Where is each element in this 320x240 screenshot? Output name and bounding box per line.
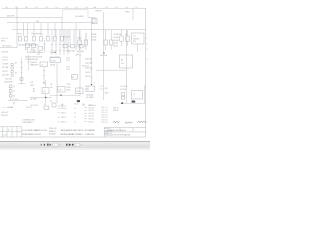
- viewer toolbar background: [0, 141, 150, 150]
- toolbar zoom field: [75, 143, 80, 146]
- svg-text:MONOGERATOR MILL . 1 SPD FD: MONOGERATOR MILL . 1 SPD FD: [61, 133, 95, 136]
- breaker Q8: [79, 44, 83, 48]
- fuse row top labels: [18, 34, 43, 36]
- svg-text:-S6: -S6: [50, 87, 53, 89]
- drive unit U1: [132, 33, 145, 44]
- wire tee group: [51, 30, 69, 55]
- svg-text:-X1:1 L1: -X1:1 L1: [2, 57, 8, 59]
- revision text rows: [22, 129, 47, 136]
- svg-text:-M3 2.2kW: -M3 2.2kW: [100, 55, 108, 57]
- svg-text:21: 21: [14, 91, 16, 93]
- toolbar prev icon: [43, 144, 45, 146]
- svg-text:-B2: -B2: [85, 89, 88, 91]
- svg-text:SEQUENCE SECTION - STONERU: SEQUENCE SECTION - STONERU: [61, 130, 96, 132]
- node D: [60, 95, 61, 96]
- svg-text:-W17 0.75: -W17 0.75: [101, 122, 108, 124]
- wire feeder e: [40, 23, 42, 36]
- svg-text:13: 13: [14, 86, 16, 88]
- wire lower hline: [8, 100, 28, 102]
- svg-text:10: 10: [25, 7, 27, 9]
- svg-text:-W12 0.75: -W12 0.75: [101, 109, 108, 111]
- label k11 left rows: [30, 87, 37, 100]
- sensor marks: [100, 86, 109, 94]
- ground M1: [12, 103, 15, 105]
- wire t1 drop: [43, 67, 45, 83]
- fuse F2: [25, 36, 28, 41]
- wire feeder b: [23, 23, 25, 36]
- svg-text:-W11 12x: -W11 12x: [113, 107, 119, 109]
- svg-text:STONE MILL MCC E-41001: STONE MILL MCC E-41001: [107, 130, 126, 132]
- svg-text:-S12 3/4: -S12 3/4: [85, 76, 91, 78]
- svg-text:-K20 13/14: -K20 13/14: [85, 59, 92, 61]
- contact col4 a: [90, 61, 92, 63]
- title block: [104, 128, 146, 137]
- svg-text:-W3 4x1.5: -W3 4x1.5: [1, 115, 8, 117]
- relay K12: [58, 87, 66, 93]
- svg-text:T1: T1: [41, 64, 43, 66]
- svg-text:-W11 0.75: -W11 0.75: [101, 107, 108, 109]
- wire ladder foot: [18, 83, 25, 85]
- wire feeder g: [54, 23, 56, 36]
- svg-text:-X1:2 N: -X1:2 N: [2, 59, 8, 61]
- svg-text:-F14 -F15: -F14 -F15: [63, 36, 70, 38]
- contactor K6: [110, 40, 113, 45]
- svg-text:X9:6 1.5: X9:6 1.5: [89, 121, 95, 123]
- svg-text:0 1 2 3: 0 1 2 3: [3, 135, 7, 137]
- fuse F6: [54, 36, 57, 41]
- svg-text:X9:3 1.5: X9:3 1.5: [89, 113, 95, 115]
- label g1 notes: [66, 57, 70, 71]
- wire col4 lower: [91, 58, 93, 84]
- svg-text:-W8 3G1.5: -W8 3G1.5: [95, 11, 102, 13]
- svg-text:X8:4 2.5: X8:4 2.5: [61, 122, 67, 124]
- svg-text:K12: K12: [59, 90, 62, 92]
- svg-text:X8:3 2.5: X8:3 2.5: [61, 117, 67, 119]
- label k13 right: [85, 86, 88, 93]
- svg-text:X9:4 1.5: X9:4 1.5: [89, 116, 95, 118]
- svg-text:-Q0 3x400V: -Q0 3x400V: [75, 16, 84, 18]
- wire drive drop: [137, 44, 139, 52]
- label k14 under: [86, 93, 94, 99]
- svg-text:-H2 TRIP: -H2 TRIP: [2, 67, 8, 69]
- label margin rows: [146, 34, 147, 46]
- revision table: [0, 127, 22, 137]
- svg-text:L2: L2: [74, 113, 76, 115]
- svg-text:-K11: -K11: [30, 82, 33, 84]
- wire feeder m4: [85, 33, 87, 44]
- svg-text:-X0 PE N L: -X0 PE N L: [1, 51, 9, 53]
- label feeder j: [76, 54, 89, 67]
- svg-text:-B1: -B1: [85, 86, 88, 88]
- wire feeder d: [33, 23, 35, 36]
- label stack pins: [14, 86, 16, 97]
- relay K14: [88, 86, 95, 91]
- svg-text:X8:2 2.5: X8:2 2.5: [61, 113, 67, 115]
- svg-text:-W2 4x2.5: -W2 4x2.5: [1, 112, 8, 114]
- svg-text:ss4: ss4: [94, 7, 97, 9]
- contactor K11: [42, 88, 49, 94]
- svg-text:13/14: 13/14: [30, 85, 34, 87]
- svg-text:DWG NO: DWG NO: [105, 128, 112, 130]
- svg-text:-W13 0.75: -W13 0.75: [101, 112, 108, 114]
- svg-text:-M1 MOTOR: -M1 MOTOR: [4, 81, 13, 83]
- motor starter stack: [9, 85, 12, 101]
- indicator squares: [11, 63, 13, 76]
- label k cluster rows: [30, 50, 40, 55]
- contact t1 a: [43, 70, 45, 72]
- svg-text:5/L3: 5/L3: [37, 54, 40, 56]
- svg-text:VFD 4kW: VFD 4kW: [133, 38, 140, 40]
- enclosure box: [120, 55, 133, 68]
- toolbar play icon: [69, 143, 71, 146]
- svg-text:-K15 13/14: -K15 13/14: [5, 78, 12, 80]
- svg-text:L3: L3: [74, 117, 76, 119]
- svg-text:S7: S7: [50, 101, 52, 103]
- wire k12 bus: [50, 94, 80, 96]
- label bl symbol: [3, 106, 14, 109]
- coil K1a: [20, 78, 23, 81]
- svg-text:21/22: 21/22: [67, 84, 71, 86]
- notes block 1: [49, 128, 57, 135]
- svg-text:-X3 1 2 3: -X3 1 2 3: [12, 99, 18, 101]
- svg-text:X8:1 2.5: X8:1 2.5: [61, 108, 67, 110]
- svg-text:X9:5 1.5: X9:5 1.5: [89, 119, 95, 121]
- svg-text:-W1 4x6mm2: -W1 4x6mm2: [2, 46, 12, 48]
- meter box P1: [92, 19, 97, 24]
- contact marks mid: [75, 54, 81, 56]
- svg-text:1: 1: [54, 145, 55, 147]
- label drive rows: [133, 36, 140, 44]
- wire f8 drop: [121, 41, 123, 46]
- wire f8 rail: [121, 30, 123, 36]
- node J: [103, 52, 104, 53]
- ground bottom: [61, 103, 64, 107]
- svg-text:-W5 3x1.5: -W5 3x1.5: [82, 66, 89, 68]
- svg-text:1.5kW 2.2kW: 1.5kW 2.2kW: [66, 51, 76, 53]
- fuse F9: [126, 36, 129, 41]
- power supply G1: [50, 58, 61, 63]
- svg-text:-X6 1 2: -X6 1 2: [74, 104, 79, 106]
- svg-text:1) TORQUE 2.5Nm: 1) TORQUE 2.5Nm: [22, 119, 36, 121]
- contactor K3: [78, 40, 82, 45]
- dark node F: [132, 101, 135, 103]
- svg-text:-X10 1 2: -X10 1 2: [26, 107, 32, 109]
- svg-text:4: 4: [147, 49, 148, 51]
- label bm rows: [101, 107, 108, 124]
- contactor K4: [84, 40, 88, 45]
- contact t1 b: [43, 75, 45, 77]
- contact S2: [20, 67, 22, 69]
- label lower left: [4, 78, 13, 83]
- filter symbols: [122, 93, 125, 100]
- zone labels: [5, 7, 137, 9]
- svg-text:-W10: -W10: [105, 92, 109, 94]
- svg-text:-K21 21/22: -K21 21/22: [85, 63, 92, 65]
- svg-text:X9:2 1.5: X9:2 1.5: [89, 110, 95, 112]
- svg-text:-W15 0.75: -W15 0.75: [101, 117, 108, 119]
- svg-text:F3 F4 F5 F6 F7: F3 F4 F5 F6 F7: [32, 34, 43, 36]
- svg-text:-S10 RST: -S10 RST: [2, 74, 9, 76]
- svg-text:-S5: -S5: [50, 84, 53, 86]
- wire L2 bus: [7, 22, 95, 24]
- svg-text:Y1: Y1: [133, 94, 135, 96]
- label k12 notes: [50, 84, 70, 91]
- svg-text:S2: S2: [15, 72, 17, 74]
- svg-text:L1: L1: [74, 108, 76, 110]
- wire feeder long1: [103, 12, 105, 100]
- wire feeder j: [79, 30, 81, 95]
- wire feeder long2: [126, 30, 128, 103]
- contactor K2: [32, 44, 36, 48]
- sheet border frame: [0, 8, 146, 137]
- contactor K1: [26, 44, 30, 48]
- terminal list rows B: [84, 107, 94, 123]
- svg-text:-H1 RUN: -H1 RUN: [2, 64, 8, 66]
- wire feeder i: [75, 23, 77, 50]
- svg-text:K11: K11: [43, 91, 46, 93]
- contact S4: [27, 61, 29, 63]
- label sel rows: [31, 63, 38, 66]
- svg-text:K13: K13: [77, 91, 80, 93]
- label col4 lower rows: [85, 59, 92, 79]
- wire feeder m3: [73, 30, 75, 44]
- svg-text:-W14 0.75: -W14 0.75: [101, 114, 108, 116]
- contact col4 c: [90, 77, 92, 79]
- wire f9 drop: [127, 41, 129, 46]
- valve Y1: [132, 91, 143, 100]
- wire feeder m1: [65, 30, 67, 44]
- wire riser x133: [132, 8, 134, 20]
- node A: [17, 17, 18, 18]
- incoming supply block Q0: [63, 9, 89, 11]
- svg-text:R1: R1: [44, 104, 46, 106]
- svg-text:-W9: -W9: [105, 88, 108, 90]
- wire feeder f: [47, 23, 49, 36]
- svg-text:L4: L4: [74, 122, 76, 124]
- svg-text:-X2:3: -X2:3: [66, 67, 70, 69]
- wire feeder c: [27, 23, 29, 36]
- label tee texts: [50, 56, 60, 58]
- svg-text:COND. COL: COND. COL: [49, 128, 57, 130]
- terminal strip X2: [72, 75, 78, 80]
- svg-text:X9:1 1.5: X9:1 1.5: [89, 107, 95, 109]
- component bottom a: [44, 106, 49, 109]
- wire feeder m5: [91, 30, 93, 58]
- svg-text:5: 5: [147, 59, 148, 61]
- fuse F5: [47, 36, 50, 41]
- svg-text:IP20: IP20: [133, 41, 136, 43]
- toolbar next icon: [50, 144, 52, 146]
- svg-text:G1 24V: G1 24V: [51, 60, 56, 62]
- wire feeder a: [16, 8, 18, 48]
- svg-text:-W12 4x: -W12 4x: [113, 110, 119, 112]
- transformer T1: [40, 62, 48, 67]
- svg-text:/2: /2: [59, 145, 60, 147]
- label bm extra: [113, 107, 119, 112]
- label left list: [2, 57, 9, 77]
- svg-text:S1: S1: [15, 62, 17, 64]
- title sub block: [105, 128, 113, 135]
- label mid lower: [30, 82, 34, 87]
- svg-text:-K22 13/14: -K22 13/14: [85, 67, 92, 69]
- wire right lower v: [144, 85, 146, 103]
- label bl rows: [1, 112, 8, 117]
- svg-text:31/32: 31/32: [67, 87, 71, 89]
- contactor K5: [104, 40, 107, 45]
- svg-text:SHEET 1/2: SHEET 1/2: [105, 133, 112, 135]
- svg-text:-S11 3/4: -S11 3/4: [85, 72, 91, 74]
- node H: [54, 52, 55, 53]
- label right lower rows: [120, 86, 128, 91]
- fuse F1: [19, 36, 22, 41]
- svg-text:2) SEE SHEET 2: 2) SEE SHEET 2: [22, 122, 34, 124]
- node G: [91, 84, 92, 85]
- aux block S7: [52, 103, 56, 107]
- svg-text:12: 12: [5, 7, 7, 9]
- fuse F8: [120, 36, 123, 41]
- svg-text:-X2:4: -X2:4: [66, 69, 70, 71]
- relay K13: [76, 88, 84, 94]
- wire g1 drop: [56, 63, 58, 103]
- fuse F4: [40, 36, 43, 41]
- wire feeder m2: [69, 30, 71, 44]
- svg-text:43/44: 43/44: [67, 89, 71, 91]
- overload relay F10: [38, 47, 43, 51]
- svg-text:A1: A1: [121, 59, 123, 62]
- toolbar minus icon: [66, 144, 68, 146]
- contact col4 b: [90, 69, 92, 71]
- svg-text:-W16 0.75: -W16 0.75: [101, 119, 108, 121]
- toolbar dot icon: [47, 144, 48, 146]
- svg-text:X2: X2: [72, 77, 74, 79]
- svg-text:F1 F2: F1 F2: [18, 34, 22, 36]
- svg-text:F8: F8: [119, 34, 121, 36]
- svg-text:-X7:1 24V: -X7:1 24V: [120, 86, 128, 88]
- breaker Q6: [63, 44, 67, 48]
- svg-text:1/L1 3/L2: 1/L1 3/L2: [30, 50, 36, 52]
- terminal list rows A: [58, 108, 76, 124]
- wire ladder rail 1: [21, 58, 23, 84]
- svg-text:-D1 1N4007: -D1 1N4007: [86, 97, 94, 99]
- wire k11 drop: [45, 80, 47, 88]
- label right margin: [147, 49, 148, 61]
- svg-text:-X2:1: -X2:1: [66, 57, 70, 59]
- svg-text:SHT.2: SHT.2: [126, 12, 131, 14]
- label right mid rows: [113, 33, 118, 47]
- wire k11 bus: [30, 96, 52, 98]
- svg-text:-X7:2 0V: -X7:2 0V: [120, 89, 127, 91]
- toolbar plus icon: [72, 144, 74, 146]
- wire L3 bus: [12, 29, 146, 31]
- svg-text:-Q6: -Q6: [68, 46, 71, 48]
- svg-text:2.2 4.0 1.5 3.0: 2.2 4.0 1.5 3.0: [50, 56, 60, 58]
- fuse row bottom labels: [18, 43, 38, 46]
- toolbar far left icon: [41, 144, 42, 146]
- svg-text:K1: K1: [25, 49, 27, 51]
- label col4 rows: [91, 33, 97, 42]
- svg-text:-R2 120R: -R2 120R: [30, 99, 37, 101]
- contact S3: [20, 72, 22, 74]
- svg-text:-X2:2: -X2:2: [66, 60, 70, 62]
- signature marks: [113, 121, 146, 123]
- aux contacts: [44, 40, 46, 53]
- wire L1 bus: [0, 16, 63, 18]
- wire interconnect y70: [96, 69, 127, 71]
- svg-text:BK BN GY: BK BN GY: [49, 131, 56, 133]
- wire right lower h: [120, 102, 146, 104]
- fuse F3: [33, 36, 36, 41]
- wire f9 rail: [127, 30, 129, 36]
- svg-text:-B3: -B3: [85, 91, 88, 93]
- wire from Q0: [88, 16, 95, 18]
- wire feeder h: [61, 17, 63, 36]
- contact S1: [20, 62, 22, 64]
- svg-text:F9: F9: [125, 34, 127, 36]
- toolbar page field: [53, 143, 58, 146]
- wire ladder rail 2: [28, 55, 30, 70]
- svg-text:IEC 60204: IEC 60204: [49, 133, 56, 135]
- node K: [121, 102, 123, 104]
- svg-text:-Q7: -Q7: [75, 46, 78, 48]
- dark node E: [77, 100, 80, 102]
- wire stub: [0, 47, 17, 49]
- node C: [45, 97, 46, 98]
- breaker Q7: [71, 44, 75, 48]
- svg-text:K3 K4: K3 K4: [78, 38, 82, 40]
- wire k-links: [27, 48, 29, 53]
- svg-text:-M2 1.5kW: -M2 1.5kW: [77, 51, 85, 53]
- node B: [43, 82, 44, 83]
- label notes small: [22, 119, 36, 124]
- fuse F7: [61, 36, 64, 41]
- svg-text:-U1: -U1: [133, 36, 136, 38]
- ground bottom 2: [82, 103, 85, 106]
- svg-text:-H3 FLT: -H3 FLT: [2, 71, 8, 73]
